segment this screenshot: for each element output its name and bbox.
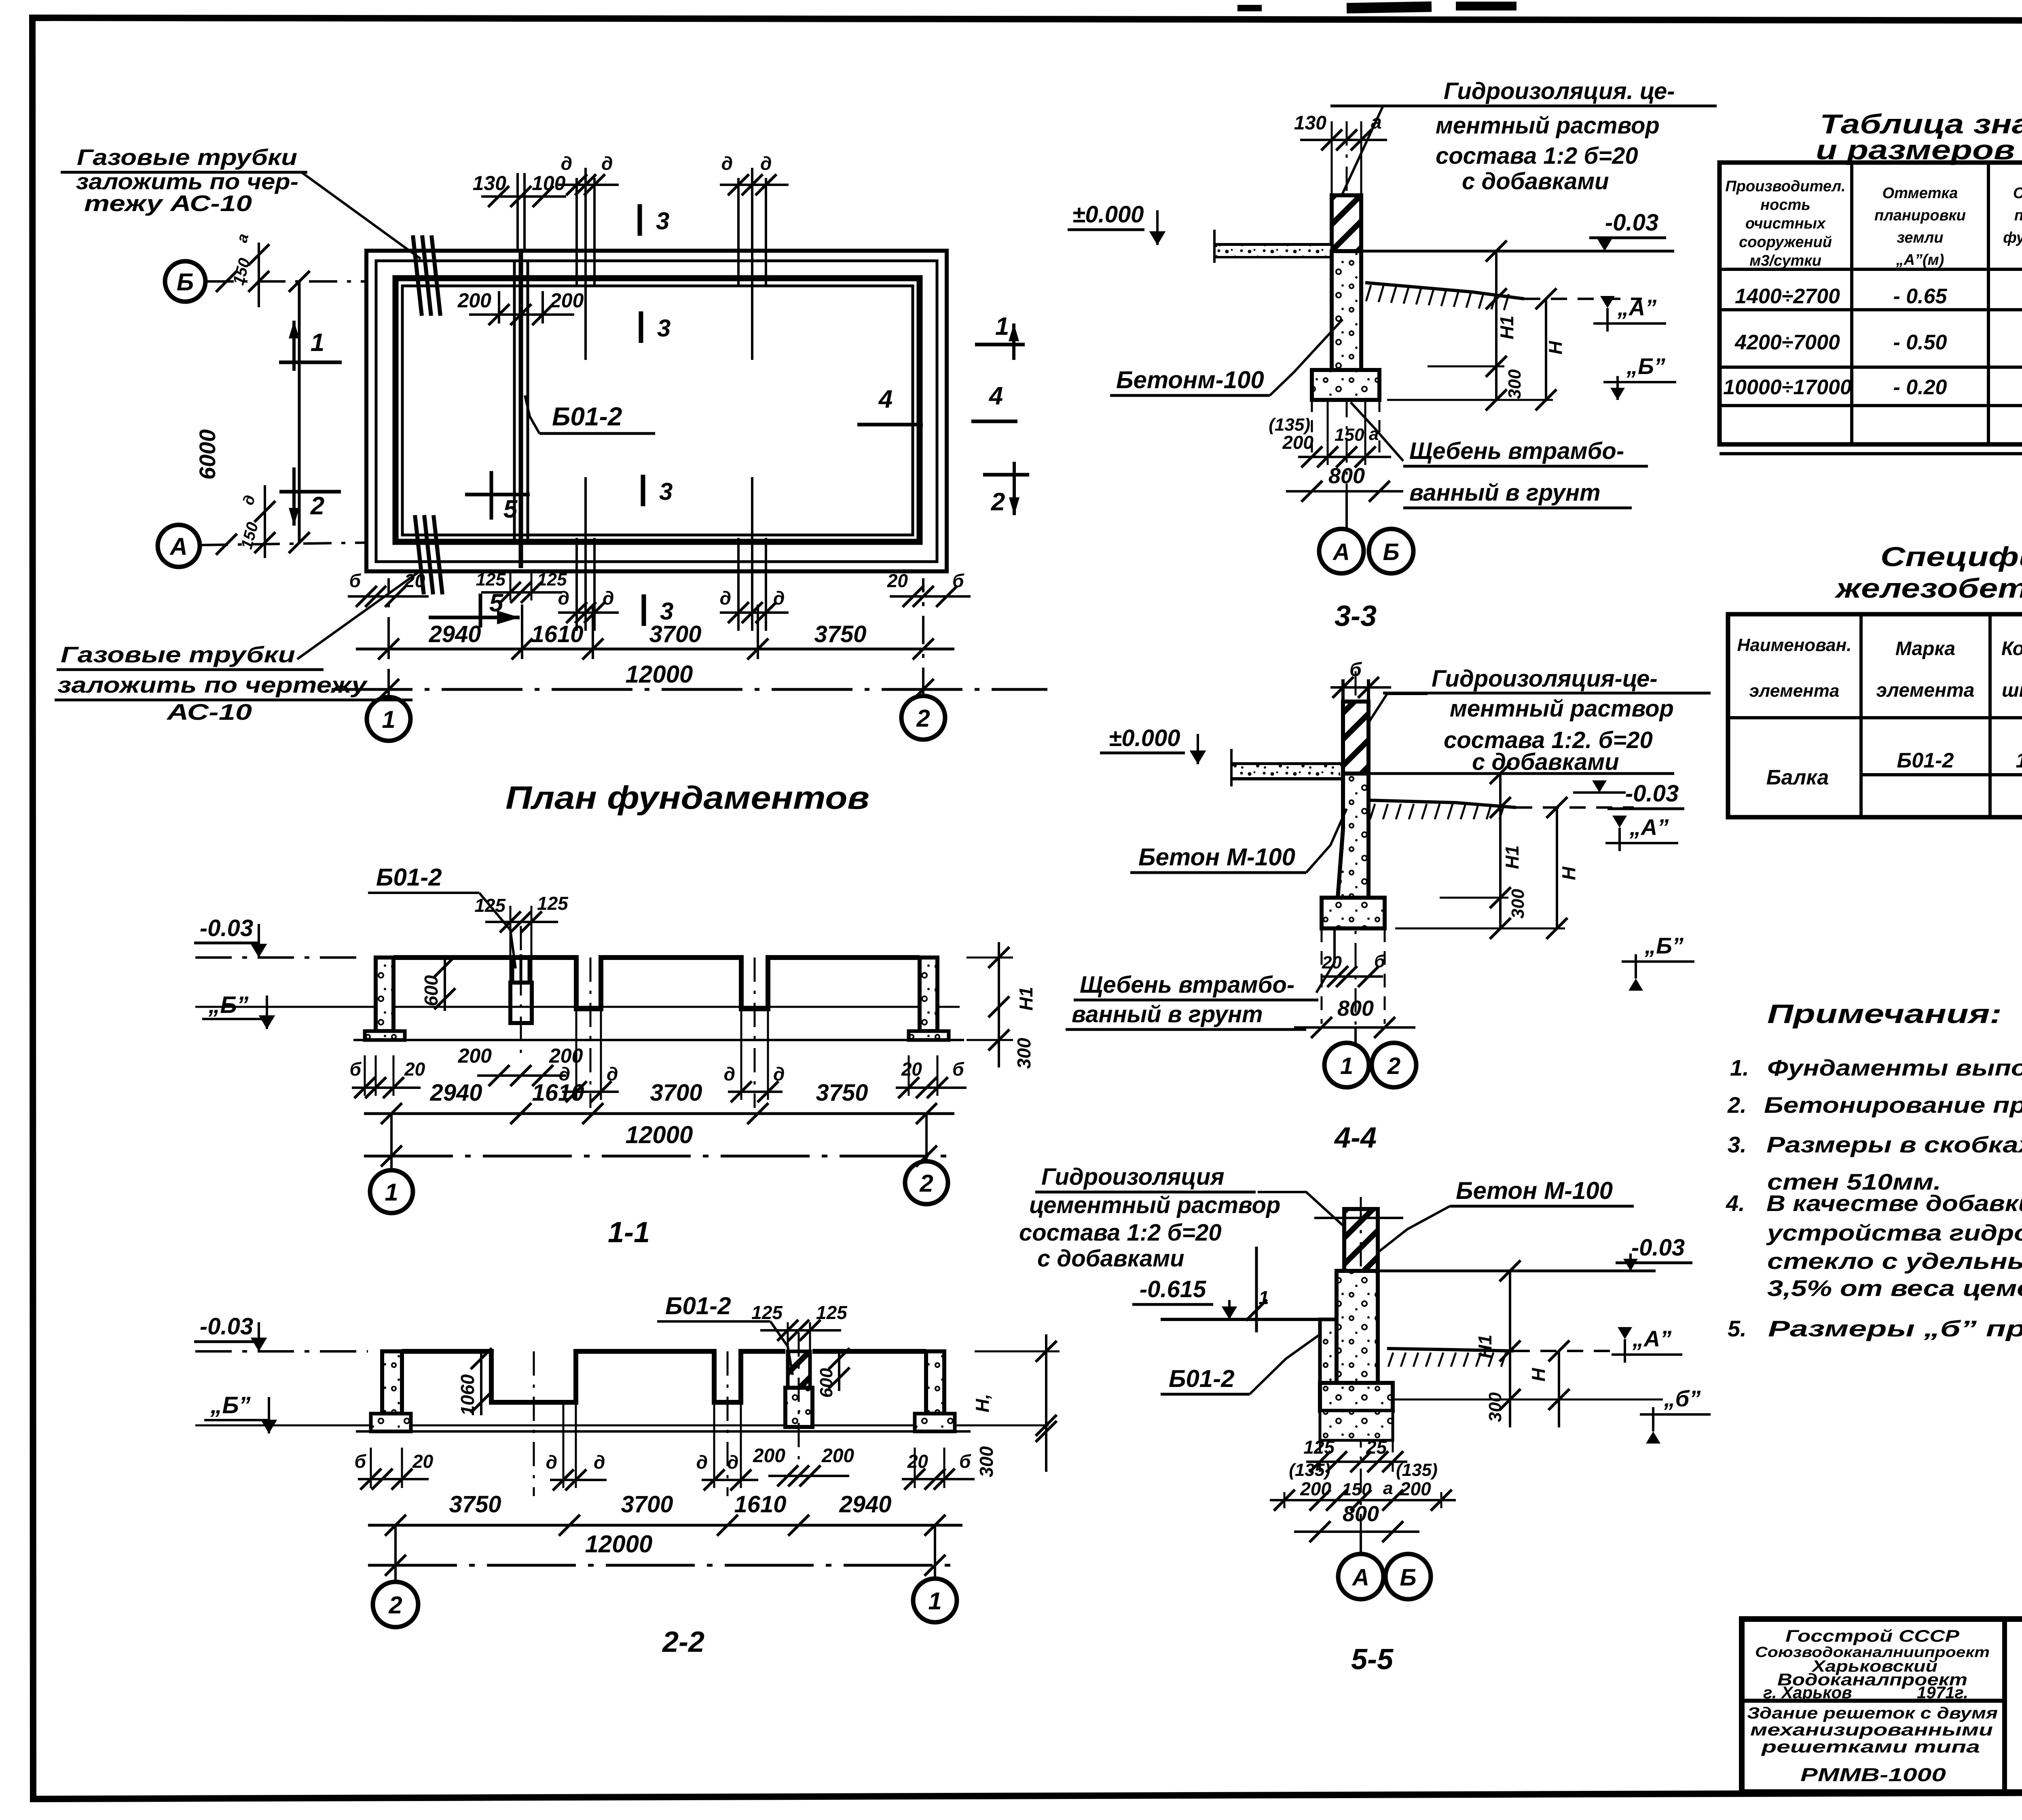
svg-text:ность: ность <box>1760 197 1810 213</box>
svg-text:5-5: 5-5 <box>1351 1643 1394 1676</box>
section 2-2: axis dash lines <box>798 1332 800 1464</box>
section 5-5: dim 800 <box>1294 1530 1419 1533</box>
svg-text:с добавками: с добавками <box>1472 749 1619 775</box>
svg-text:150: 150 <box>1335 425 1364 445</box>
svg-text:800: 800 <box>1328 464 1365 488</box>
svg-text:Н: Н <box>1545 341 1566 355</box>
svg-text:125: 125 <box>537 893 569 914</box>
section 4-4: soil line and hatch <box>1368 800 1516 807</box>
svg-text:План фундаментов: План фундаментов <box>505 780 869 816</box>
plan: section mark 1 left <box>292 321 296 371</box>
title block: left cell divider <box>1742 1699 2005 1703</box>
axis B line <box>205 280 366 283</box>
svg-text:ментный раствор: ментный раствор <box>1436 112 1660 139</box>
svg-text:„б”: „б” <box>1664 1386 1701 1411</box>
section 3-3: dims (135)200 150 a <box>1298 456 1391 458</box>
plan: sleeve pair d d bottom wall #2 <box>737 538 740 631</box>
svg-text:РММВ-1000: РММВ-1000 <box>1800 1764 1946 1785</box>
svg-text:цементный раствор: цементный раствор <box>1029 1192 1280 1218</box>
svg-text:1: 1 <box>311 329 324 357</box>
axis 2 circle <box>901 696 945 740</box>
section 2-2: axis circle 1 <box>934 1525 936 1579</box>
svg-text:200: 200 <box>457 289 492 312</box>
section 1-1: level B line <box>195 1006 960 1008</box>
section 2-2: level B line <box>195 1425 1049 1427</box>
svg-text:Н1: Н1 <box>1502 846 1523 869</box>
svg-text:Б: Б <box>177 268 194 296</box>
svg-text:5.: 5. <box>1728 1316 1747 1341</box>
section 1-1: beam B01-2 seat <box>510 983 532 1023</box>
svg-text:д: д <box>773 1063 785 1084</box>
plan: dim 150 a at axis B <box>258 243 260 307</box>
svg-text:2.: 2. <box>1727 1092 1747 1118</box>
svg-text:(135): (135) <box>1289 1460 1330 1480</box>
svg-text:фундамент.: фундамент. <box>2003 229 2022 246</box>
svg-text:земли: земли <box>1897 229 1944 246</box>
svg-text:1: 1 <box>1340 1053 1353 1079</box>
svg-text:планировки: планировки <box>1874 207 1966 224</box>
section 5-5: brick wall above ground (hatched) <box>1344 1209 1378 1271</box>
svg-text:20: 20 <box>887 570 908 591</box>
svg-text:„А”(м): „А”(м) <box>1896 252 1944 268</box>
axis A line <box>200 543 366 545</box>
plan: vertical dim 6000 between axes <box>298 281 301 543</box>
svg-text:1400÷2700: 1400÷2700 <box>1735 285 1840 308</box>
svg-text:Фундаменты выполняются из б: Фундаменты выполняются из бетона марки „… <box>1767 1055 2022 1080</box>
svg-text:20: 20 <box>404 1059 425 1080</box>
svg-text:200: 200 <box>1400 1478 1431 1499</box>
svg-text:Б: Б <box>1383 539 1399 565</box>
svg-text:200: 200 <box>753 1445 785 1467</box>
svg-text:подошвы: подошвы <box>2014 207 2022 224</box>
plan: dim 200 200 under top wall at interior wall <box>469 313 574 316</box>
leader to bottom sleeves <box>297 572 419 659</box>
axis 1 circle <box>367 697 410 741</box>
svg-text:железобетонных элементов: железобетонных элементов <box>1834 573 2022 604</box>
svg-text:Газовые трубки: Газовые трубки <box>61 642 295 667</box>
section 5-5: footing <box>1320 1383 1393 1411</box>
svg-text:-0.615: -0.615 <box>1140 1276 1206 1302</box>
svg-text:„А”: „А” <box>1629 814 1669 840</box>
svg-text:д: д <box>558 588 569 609</box>
svg-text:Н1: Н1 <box>1474 1335 1495 1359</box>
svg-text:механизированными: механизированными <box>1750 1720 1993 1739</box>
section 2-2: right pier (axis 1) <box>926 1351 944 1414</box>
svg-text:600: 600 <box>816 1368 836 1398</box>
plan: small dim b 20 at axis1 bottom left <box>348 595 429 598</box>
section 5-5: soil line and hatch <box>1387 1349 1514 1351</box>
section 2-2: level line -0.03 <box>195 1350 368 1353</box>
svg-text:элемента: элемента <box>1749 681 1840 701</box>
section 2-2: dim 125 125 above beam <box>787 1322 789 1388</box>
axis A circle <box>158 525 200 567</box>
svg-text:200: 200 <box>821 1445 854 1467</box>
section 2-2: dim row 3750 3700 1610 2940 <box>368 1524 962 1527</box>
plan: section mark 2 left <box>292 467 296 526</box>
svg-text:Марка: Марка <box>1895 638 1955 660</box>
svg-text:Кол.: Кол. <box>2001 638 2022 660</box>
specification table: grid <box>1728 614 2022 817</box>
plan: section mark 5 below with arrow <box>479 594 482 628</box>
svg-text:3: 3 <box>659 478 673 505</box>
section 3-3: brick wall above ground (hatched) <box>1332 195 1361 251</box>
svg-text:3: 3 <box>656 207 669 235</box>
section 1-1: dim 125 125 above beam <box>510 906 512 983</box>
svg-text:б: б <box>349 570 362 591</box>
svg-text:с добавками: с добавками <box>1037 1245 1184 1272</box>
plan: interior wall (beam B01-2 axis) <box>513 262 516 540</box>
section 3-3: axis circles A B <box>1345 491 1348 530</box>
section 3-3: dim 800 <box>1286 490 1403 493</box>
svg-text:д: д <box>594 1452 605 1473</box>
section 4-4: dims 20 b at footing <box>1322 975 1383 978</box>
section 2-2: dim 600 at beam <box>838 1351 840 1391</box>
svg-text:д: д <box>696 1452 708 1473</box>
svg-text:сооружений: сооружений <box>1739 234 1832 251</box>
svg-text:300: 300 <box>976 1446 997 1477</box>
svg-text:4: 4 <box>988 382 1003 410</box>
svg-text:4200÷7000: 4200÷7000 <box>1734 331 1840 354</box>
svg-text:очистных: очистных <box>1745 215 1826 232</box>
section 3-3: leader from note to footing <box>1351 402 1403 461</box>
section 2-2: small dims d d step2 <box>702 1479 758 1481</box>
svg-text:-0.03: -0.03 <box>1625 780 1679 807</box>
svg-text:Спецификация сборных: Спецификация сборных <box>1880 541 2022 572</box>
section 3-3: floor slab left <box>1214 243 1332 247</box>
svg-text:(135): (135) <box>1396 1460 1438 1480</box>
svg-text:Щебень втрамбо-: Щебень втрамбо- <box>1080 972 1294 998</box>
svg-text:Бетонм-100: Бетонм-100 <box>1116 366 1264 393</box>
svg-text:„А”: „А” <box>1632 1326 1671 1351</box>
svg-text:тежу АС-10: тежу АС-10 <box>84 190 252 216</box>
svg-text:д: д <box>727 1452 738 1473</box>
svg-text:3700: 3700 <box>650 1080 702 1106</box>
section 1-1: axis dash lines <box>520 926 522 1055</box>
section 4-4: concrete stem below ground <box>1338 774 1368 898</box>
section 3-3: extension lines below footing <box>1311 400 1313 457</box>
svg-text:Щебень втрамбо-: Щебень втрамбо- <box>1409 438 1624 464</box>
plan: dimension row 2940 1610 3700 3750 <box>356 648 954 651</box>
svg-text:В качестве добавки к цементном: В качестве добавки к цементному раствору… <box>1766 1190 2022 1216</box>
svg-text:д: д <box>607 1063 618 1084</box>
section 4-4: leader from note to footing <box>1316 930 1335 993</box>
svg-text:Н,: Н, <box>972 1394 993 1412</box>
svg-text:20: 20 <box>412 1451 434 1472</box>
section 1-1: small dims d d notch2 <box>728 1091 783 1093</box>
svg-text:элемента: элемента <box>1876 680 1975 701</box>
svg-text:3700: 3700 <box>621 1491 673 1518</box>
svg-text:Н: Н <box>1558 867 1579 880</box>
svg-text:1: 1 <box>995 313 1009 340</box>
section 5-5: rubble zone below footing <box>1320 1411 1393 1440</box>
svg-text:2: 2 <box>310 492 324 520</box>
section 2-2: left footing <box>371 1414 411 1431</box>
svg-text:Размеры в скобках даны для тол: Размеры в скобках даны для толщины наруж… <box>1766 1132 2022 1157</box>
plan: small dim 20 b at axis2 bottom right <box>890 595 971 598</box>
svg-text:- 0.65: - 0.65 <box>1893 285 1948 308</box>
svg-text:состава 1:2 б=20: состава 1:2 б=20 <box>1019 1220 1222 1246</box>
svg-text:д: д <box>603 588 614 609</box>
plan: dim 150 at axis A <box>264 485 266 558</box>
plan: gas pipe sleeves bottom wall (triple slash) <box>415 515 424 594</box>
plan: sleeve pair d d top wall #1 <box>575 178 578 285</box>
section 1-1: dim row 2940 1610 3700 3750 <box>364 1112 954 1115</box>
section 1-1: left footing <box>365 1031 405 1040</box>
section 5-5: concrete stem <box>1337 1271 1378 1383</box>
axis 1 line <box>387 578 390 697</box>
plan: section mark 5 inside <box>490 471 493 520</box>
svg-text:4-4: 4-4 <box>1334 1122 1377 1154</box>
svg-text:состава 1:2 б=20: состава 1:2 б=20 <box>1436 143 1638 169</box>
svg-text:300: 300 <box>1013 1038 1034 1069</box>
svg-text:3: 3 <box>660 598 673 625</box>
svg-text:4.: 4. <box>1726 1190 1745 1216</box>
svg-text:Отметка: Отметка <box>1882 185 1958 202</box>
section 1-1: small dims 20 b right <box>896 1087 967 1089</box>
svg-text:Б01-2: Б01-2 <box>1169 1365 1235 1392</box>
section 4-4: dashed rubble zone below footing <box>1321 928 1323 1024</box>
section 2-2: dim row 12000 <box>368 1564 962 1567</box>
title block: vertical dividers <box>2002 1619 2007 1792</box>
section 3-3: soil line and hatch <box>1365 283 1524 299</box>
section 5-5: pit step concrete <box>1320 1319 1337 1383</box>
section 1-1: small dims 200 200 under beam <box>477 1074 566 1077</box>
svg-text:Б01-2: Б01-2 <box>552 402 622 431</box>
plan: gas pipe sleeves top wall (triple slash) <box>413 235 422 316</box>
svg-text:АС-10: АС-10 <box>166 699 252 725</box>
plan: dimension row 12000 <box>332 688 1047 691</box>
svg-text:130: 130 <box>473 172 507 194</box>
svg-text:125: 125 <box>816 1302 848 1323</box>
svg-text:3: 3 <box>657 315 670 342</box>
section 1-1: right pier (axis 2) concrete <box>920 958 937 1031</box>
svg-text:а: а <box>1371 112 1382 133</box>
svg-text:300: 300 <box>1485 1392 1505 1422</box>
section 2-2: footing bottom line <box>356 1430 971 1433</box>
section 2-2: small dims d d step1 <box>550 1479 607 1481</box>
section 5-5: dims below footing 125 25 <box>1306 1461 1407 1463</box>
svg-text:„Б”: „Б” <box>208 992 248 1018</box>
scan smudges top edge <box>1347 2 1432 14</box>
plan: small dim 125 125 at interior wall bottom <box>481 591 562 594</box>
svg-text:Бетон М-100: Бетон М-100 <box>1138 843 1295 871</box>
section 4-4: ground level line right <box>1368 772 1674 775</box>
svg-text:1-1: 1-1 <box>608 1216 650 1249</box>
svg-text:1610: 1610 <box>532 1080 584 1106</box>
section 4-4: floor slab left <box>1231 762 1343 766</box>
section 3-3: leader from note to wall <box>1339 106 1438 202</box>
svg-text:Н1: Н1 <box>1496 316 1517 340</box>
svg-text:3700: 3700 <box>649 621 701 647</box>
svg-text:б: б <box>959 1451 971 1472</box>
svg-text:б: б <box>952 570 964 591</box>
svg-text:Гидроизоляция. це-: Гидроизоляция. це- <box>1444 78 1675 104</box>
section 4-4: dim b on top <box>1330 686 1391 689</box>
svg-text:2: 2 <box>1387 1053 1400 1079</box>
plan: section mark 2 right <box>1013 462 1016 515</box>
svg-text:300: 300 <box>1505 369 1525 399</box>
svg-text:ментный раствор: ментный раствор <box>1450 695 1674 722</box>
svg-text:1610: 1610 <box>531 621 583 647</box>
svg-text:200: 200 <box>1300 1478 1331 1499</box>
svg-text:„Б”: „Б” <box>210 1392 250 1418</box>
svg-text:ванный в грунт: ванный в грунт <box>1409 480 1601 506</box>
section 5-5: level b line <box>1393 1399 1663 1401</box>
section 2-2: axis circle 2 <box>394 1525 397 1582</box>
section 4-4: wall centerline <box>1355 671 1357 1043</box>
svg-text:100: 100 <box>532 172 566 194</box>
svg-text:125: 125 <box>537 570 567 590</box>
section 4-4: footing <box>1322 898 1385 928</box>
section 3-3: concrete stem below ground <box>1332 251 1361 370</box>
section 5-5: vertical dim H <box>1558 1351 1560 1427</box>
svg-text:д: д <box>561 153 572 174</box>
section 1-1: small dims d d notch1 <box>562 1091 619 1093</box>
section 2-2: small dims 200 200 at beam <box>768 1475 849 1477</box>
svg-text:3.: 3. <box>1728 1132 1747 1157</box>
section 4-4: leader from note to wall <box>1355 694 1428 744</box>
svg-text:д: д <box>720 588 731 609</box>
section 5-5: ground level line right <box>1378 1270 1656 1273</box>
section 3-3: footing <box>1312 370 1379 400</box>
svg-text:„Б”: „Б” <box>1644 933 1684 958</box>
svg-text:д: д <box>724 1063 735 1084</box>
svg-text:1: 1 <box>385 1179 398 1206</box>
svg-text:„Б”: „Б” <box>1626 353 1665 379</box>
svg-text:3750: 3750 <box>449 1491 501 1518</box>
svg-text:д: д <box>760 153 772 174</box>
svg-text:Б01-2: Б01-2 <box>1897 749 1954 772</box>
svg-text:±0.000: ±0.000 <box>1072 201 1144 228</box>
svg-text:1.: 1. <box>1730 1055 1749 1080</box>
svg-text:- 0.50: - 0.50 <box>1893 331 1947 354</box>
section 4-4: dim 800 <box>1294 1026 1415 1029</box>
plan: interior wall extension lines above with dim 130 100 <box>516 173 519 251</box>
svg-text:с добавками: с добавками <box>1462 168 1609 194</box>
section 3-3: dim 130 a on top <box>1300 139 1387 141</box>
section 1-1: right footing <box>909 1031 949 1040</box>
svg-text:-0.03: -0.03 <box>200 915 253 941</box>
svg-text:Бетон М-100: Бетон М-100 <box>1456 1177 1613 1204</box>
svg-text:-0.03: -0.03 <box>1605 209 1658 236</box>
svg-text:Н1: Н1 <box>1015 987 1036 1011</box>
svg-text:800: 800 <box>1343 1502 1379 1526</box>
svg-text:1: 1 <box>928 1587 941 1615</box>
svg-text:2-2: 2-2 <box>662 1626 704 1658</box>
svg-text:Б01-2: Б01-2 <box>376 864 442 891</box>
svg-text:3750: 3750 <box>816 1080 868 1106</box>
section 1-1: small dims b 20 left <box>352 1087 421 1089</box>
svg-text:3-3: 3-3 <box>1335 600 1377 632</box>
svg-text:2940: 2940 <box>429 1080 482 1106</box>
svg-text:3,5% от веса цемента.: 3,5% от веса цемента. <box>1767 1275 2022 1301</box>
section 2-2: dim 1060 at step <box>480 1351 482 1415</box>
svg-text:Гидроизоляция-це-: Гидроизоляция-це- <box>1432 666 1658 692</box>
svg-text:10000÷17000: 10000÷17000 <box>1723 376 1852 399</box>
svg-text:шт.: шт. <box>2002 680 2022 701</box>
section 1-1: right side dims H1 300 <box>998 942 1000 1067</box>
svg-text:2: 2 <box>916 705 930 732</box>
svg-text:Примечания:: Примечания: <box>1767 999 2002 1029</box>
svg-text:заложить по чертежу: заложить по чертежу <box>57 672 368 698</box>
section 4-4: axis circles 1 2 <box>1354 1027 1357 1044</box>
svg-text:Бетонирование производить с: Бетонирование производить с вибрирование… <box>1764 1092 2022 1118</box>
svg-text:125: 125 <box>1303 1437 1335 1458</box>
svg-text:200: 200 <box>458 1044 492 1067</box>
title block: outer box <box>1742 1619 2022 1792</box>
svg-text:2940: 2940 <box>839 1491 891 1518</box>
svg-text:А: А <box>1332 539 1350 565</box>
svg-text:стекло с удельным весом 1.40-1: стекло с удельным весом 1.40-1.42 в коли… <box>1767 1248 2022 1274</box>
svg-text:б: б <box>1374 951 1386 971</box>
section 2-2: right side dims H1 300 <box>1045 1334 1047 1472</box>
svg-text:„А”: „А” <box>1617 295 1656 320</box>
svg-text:125: 125 <box>751 1302 783 1323</box>
svg-text:1971г.: 1971г. <box>1917 1683 1968 1702</box>
svg-text:12000: 12000 <box>626 1121 693 1148</box>
svg-text:А: А <box>1352 1564 1369 1591</box>
svg-text:150: 150 <box>1342 1480 1372 1499</box>
svg-text:Балка: Балка <box>1766 766 1829 789</box>
svg-text:Здание решеток с двумя: Здание решеток с двумя <box>1747 1704 1998 1722</box>
svg-text:125: 125 <box>476 570 506 590</box>
section 5-5: leader from note to wall <box>1258 1192 1343 1225</box>
section 1-1: left pier (axis 1) concrete <box>376 958 393 1031</box>
plan: inner wall face band <box>396 278 920 542</box>
svg-text:Газовые трубки: Газовые трубки <box>77 144 297 170</box>
svg-text:1060: 1060 <box>457 1374 478 1416</box>
svg-text:±0.000: ±0.000 <box>1109 725 1180 751</box>
svg-text:б: б <box>952 1059 964 1080</box>
svg-text:2: 2 <box>919 1170 933 1197</box>
section 1-1: axis circle 2 <box>925 1114 928 1161</box>
svg-text:- 0.20: - 0.20 <box>1893 376 1947 399</box>
section 3-3: vertical dim H1 <box>1495 251 1497 400</box>
svg-text:200: 200 <box>550 289 584 312</box>
svg-text:д: д <box>546 1452 557 1473</box>
svg-text:м3/сутки: м3/сутки <box>1749 252 1821 269</box>
plan: outer wall outer band <box>366 251 947 571</box>
svg-text:125: 125 <box>474 895 506 916</box>
svg-text:д: д <box>601 153 613 174</box>
plan: section marks 3 (four locations) <box>638 204 642 236</box>
svg-text:Отметки: Отметки <box>2013 185 2022 202</box>
svg-text:2940: 2940 <box>428 621 481 647</box>
svg-text:Госстрой СССР: Госстрой СССР <box>1785 1626 1960 1645</box>
svg-text:1: 1 <box>2016 749 2022 772</box>
svg-text:устройства гидроизоляции исп: устройства гидроизоляции используется жи… <box>1766 1220 2022 1245</box>
section 5-5: dims (135)200 150 a (135)200 <box>1270 1499 1456 1501</box>
svg-text:-0.03: -0.03 <box>200 1313 253 1340</box>
plan: sleeve pair d d top wall #2 <box>737 178 740 285</box>
axis B circle <box>165 261 205 302</box>
section 2-2: left pier (axis 2) <box>382 1351 402 1414</box>
svg-text:Н: Н <box>1528 1368 1549 1382</box>
svg-text:1610: 1610 <box>734 1491 786 1518</box>
svg-text:б: б <box>355 1451 367 1472</box>
section 1-1: top profile with notches <box>393 958 920 1009</box>
section 3-3: ground level line right <box>1361 250 1674 253</box>
section 3-3: vertical dim H <box>1545 299 1547 400</box>
svg-text:Размеры „б” приведены на лис: Размеры „б” приведены на листе АС-5 <box>1768 1316 2022 1341</box>
section 1-1: level line -0.03 <box>195 956 366 959</box>
svg-text:Гидроизоляция: Гидроизоляция <box>1041 1164 1225 1190</box>
axis 2 line <box>922 578 924 696</box>
section 5-5: wall top tick line <box>1314 1217 1403 1219</box>
section 1-1: dim row 12000 <box>364 1155 954 1158</box>
svg-text:20: 20 <box>901 1059 922 1080</box>
table of elevation values: grid <box>1720 163 2022 444</box>
